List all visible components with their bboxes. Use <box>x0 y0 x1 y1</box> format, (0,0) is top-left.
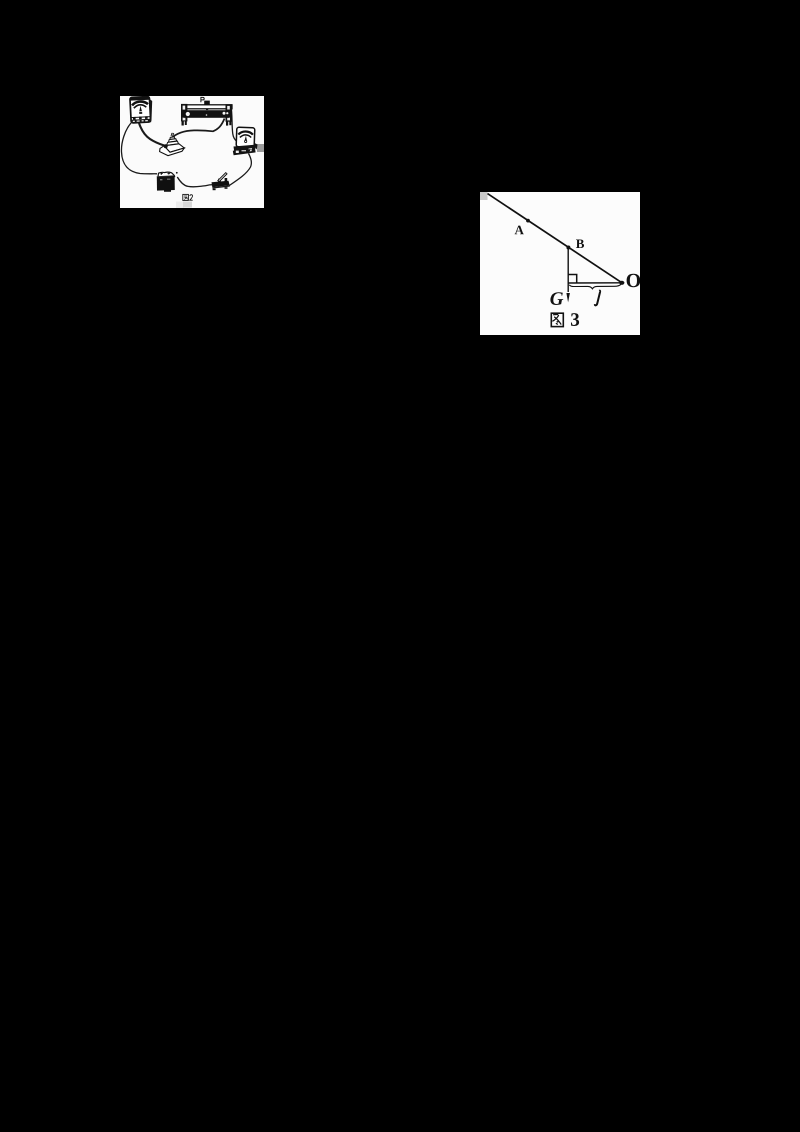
svg-text:O: O <box>626 270 640 292</box>
svg-text:3: 3 <box>570 310 580 331</box>
svg-text:B: B <box>576 236 585 251</box>
svg-text:G: G <box>550 289 564 310</box>
svg-text:A: A <box>514 222 524 237</box>
